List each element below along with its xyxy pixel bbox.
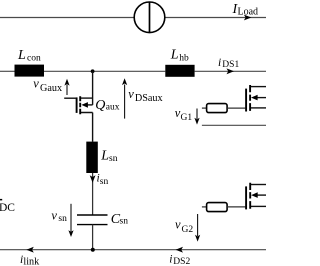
svg-text:DS2: DS2	[173, 257, 190, 266]
svg-text:L: L	[170, 47, 179, 62]
wire rail2 middle segment	[44, 70, 165, 72]
voltage arrow v_Gaux	[66, 85, 68, 96]
transistor Q2 channel dashes	[249, 183, 251, 209]
transistor Q_aux gate bar	[76, 97, 78, 113]
svg-text:i: i	[218, 57, 221, 69]
wire bottom rail	[0, 249, 266, 251]
transistor Q_aux source lead top	[81, 97, 93, 99]
svg-text:L: L	[17, 48, 26, 63]
inductor L_sn	[86, 142, 98, 173]
svg-text:Q: Q	[95, 98, 105, 113]
resistor R_G2	[207, 203, 228, 212]
svg-text:G2: G2	[182, 225, 194, 235]
inductor L_con	[15, 65, 45, 77]
voltage arrow v_sn	[70, 204, 72, 232]
wire L_sn to capacitor	[92, 173, 94, 215]
transistor Q2 gate bar	[245, 186, 247, 209]
arrow i_DS2	[176, 247, 184, 253]
svg-text:i: i	[169, 254, 172, 266]
voltage arrow v_G1	[196, 109, 198, 120]
arrow i_link	[26, 247, 34, 253]
svg-text:v: v	[175, 218, 181, 232]
transistor Q1 drain lead	[251, 86, 266, 88]
voltage arrow v_DSaux	[124, 85, 126, 119]
arrow i_DS1	[227, 68, 235, 74]
transistor Q_aux channel dashes	[79, 96, 81, 114]
transistor Q1 source lead	[251, 107, 266, 109]
wire rail2 right segment	[195, 70, 266, 72]
transistor Q2 source lead	[251, 205, 266, 207]
arrow I_Load on top rail	[244, 15, 252, 21]
wire top rail right	[165, 17, 266, 19]
transistor Q_aux drain lead bottom	[81, 113, 93, 142]
wire Q_aux source vertical from dot	[92, 71, 94, 105]
transistor Q1 gate bar	[245, 89, 247, 112]
svg-text:aux: aux	[106, 103, 120, 113]
wire gate stub upper	[202, 107, 207, 109]
transistor Q_aux gate lead	[64, 97, 76, 99]
svg-text:v: v	[128, 87, 134, 101]
transistor Q1 channel dashes	[249, 85, 251, 111]
wire capacitor to bottom rail	[92, 225, 94, 250]
capacitor C_sn top plate	[77, 214, 108, 216]
transistor Q2 drain lead	[251, 184, 266, 186]
voltage arrow v_G2	[197, 214, 199, 236]
svg-text:con: con	[27, 53, 41, 63]
inductor L_hb	[165, 65, 194, 77]
svg-text:hb: hb	[179, 54, 189, 64]
transistor Q_aux bulk arrow	[87, 104, 93, 106]
svg-text:sn: sn	[58, 214, 67, 224]
wire rail2 left segment	[0, 70, 15, 72]
wire top rail left	[0, 17, 134, 19]
capacitor C_sn bottom plate	[77, 224, 108, 226]
svg-text:G1: G1	[181, 113, 193, 123]
current source I_Load circle	[134, 2, 165, 33]
wire resistor R_G1 to gate	[227, 107, 245, 109]
wire resistor R_G2 to gate	[227, 206, 245, 208]
transistor Q2 bulk arrow	[256, 194, 266, 196]
svg-text:sn: sn	[100, 177, 109, 187]
svg-text:Load: Load	[238, 6, 259, 17]
svg-text:v: v	[51, 209, 57, 223]
node dot bottom junction	[91, 248, 95, 252]
transistor Q1 bulk arrow	[256, 97, 266, 99]
svg-text:DS1: DS1	[222, 60, 239, 70]
current source internal bar	[149, 2, 151, 33]
svg-text:L: L	[100, 149, 109, 164]
svg-text:link: link	[23, 256, 40, 266]
wire mid rail	[202, 124, 266, 126]
wire gate stub lower	[202, 206, 207, 208]
svg-text:sn: sn	[120, 217, 129, 227]
label v_DC fragment mark	[0, 199, 2, 201]
arrow i_sn	[90, 175, 96, 183]
svg-text:sn: sn	[109, 154, 118, 164]
node dot junction rail2 / Q_aux	[91, 69, 95, 73]
svg-text:Gaux: Gaux	[40, 83, 62, 94]
svg-text:DC: DC	[0, 202, 15, 214]
svg-text:DSaux: DSaux	[135, 93, 163, 104]
svg-text:v: v	[33, 77, 39, 91]
resistor R_G1	[207, 104, 228, 113]
